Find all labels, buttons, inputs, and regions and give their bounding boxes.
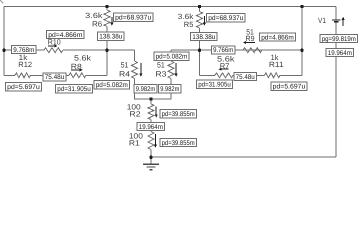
power box R4 xyxy=(94,81,130,90)
svg-text:R4: R4 xyxy=(119,69,130,78)
current box right row75 xyxy=(234,73,257,81)
svg-text:19.964m: 19.964m xyxy=(139,124,163,131)
current arrow R7 xyxy=(218,68,228,71)
power box V1 xyxy=(320,35,358,43)
svg-text:19.964m: 19.964m xyxy=(328,50,352,57)
wire bottom rail xyxy=(151,156,336,158)
svg-text:9.982m: 9.982m xyxy=(160,86,179,93)
node voltage box R4 bottom xyxy=(134,85,157,94)
svg-text:R12: R12 xyxy=(18,60,32,69)
svg-text:9.766m: 9.766m xyxy=(213,47,233,54)
current arrow R3 xyxy=(175,63,178,77)
svg-text:pd=5.082m: pd=5.082m xyxy=(156,54,188,61)
resistor R1 body xyxy=(148,132,154,150)
svg-text:75.48u: 75.48u xyxy=(45,74,65,81)
wire top rail xyxy=(4,6,336,8)
node voltage box R2 bottom xyxy=(137,123,165,131)
current arrow R9 xyxy=(243,41,255,44)
wire center column xyxy=(150,99,152,157)
wire R10 to junction xyxy=(63,49,135,51)
svg-text:9.768m: 9.768m xyxy=(13,47,34,54)
junction top-R6 xyxy=(105,5,108,8)
ground xyxy=(143,157,159,170)
node voltage box right row xyxy=(212,46,236,54)
svg-text:pd=39.855m: pd=39.855m xyxy=(162,140,195,147)
junction center xyxy=(149,97,152,100)
svg-text:pd=4.866m: pd=4.866m xyxy=(48,32,82,39)
wire R3 bottom lead xyxy=(151,79,171,100)
power box R9 xyxy=(260,33,296,41)
resistor R6 body xyxy=(104,10,110,27)
svg-text:51: 51 xyxy=(121,60,129,69)
current arrow V1 xyxy=(342,17,345,26)
svg-text:R1: R1 xyxy=(129,139,140,148)
power box R6 xyxy=(114,13,154,22)
power box R12 xyxy=(6,82,42,91)
node A junction xyxy=(2,49,5,52)
wire V1 bottom lead xyxy=(335,22,337,157)
power box R5 xyxy=(207,14,246,23)
wire R4 bottom lead xyxy=(135,79,152,100)
wire row75 left xyxy=(4,50,107,75)
resistor R12 body xyxy=(15,73,31,78)
wire left rail xyxy=(3,7,5,76)
svg-text:R11: R11 xyxy=(269,60,284,69)
current box R6 xyxy=(98,32,125,41)
svg-text:R9: R9 xyxy=(246,34,255,43)
corner tick xyxy=(0,0,4,4)
current arrow R1 xyxy=(154,134,157,148)
svg-text:138.38u: 138.38u xyxy=(99,33,122,40)
svg-text:pg=99.819m: pg=99.819m xyxy=(322,36,356,43)
svg-text:R3: R3 xyxy=(155,69,166,78)
current arrow R6 xyxy=(110,17,113,26)
resistor R9 body xyxy=(243,48,262,53)
current arrow R8 xyxy=(71,68,83,71)
node A row xyxy=(4,49,44,51)
wire R5 top stub xyxy=(199,7,201,12)
junction right-row xyxy=(300,49,303,52)
junction R5-row xyxy=(198,49,201,52)
current arrow R2 xyxy=(155,107,158,118)
power box R3 xyxy=(154,52,189,61)
current arrow R4 xyxy=(139,63,142,77)
svg-text:R7: R7 xyxy=(220,61,230,70)
resistor R11 body xyxy=(265,73,281,78)
svg-text:pd=31.905u: pd=31.905u xyxy=(57,86,91,93)
resistor R3 body xyxy=(168,61,174,79)
resistor R8 body xyxy=(69,73,86,78)
svg-text:pd=68.937u: pd=68.937u xyxy=(208,15,243,22)
battery V1 xyxy=(332,20,341,22)
resistor R5 body xyxy=(197,12,203,29)
resistor R2 body xyxy=(148,104,154,120)
power box R7 xyxy=(197,80,233,89)
svg-text:51: 51 xyxy=(157,60,165,69)
current box R5 xyxy=(191,33,218,41)
junction top-R5 xyxy=(198,5,201,8)
resistor R7 body xyxy=(215,73,233,78)
current box left row75 xyxy=(43,73,66,81)
power box R8 xyxy=(56,85,93,94)
svg-text:R2: R2 xyxy=(129,109,140,118)
wire V1 top lead xyxy=(335,7,337,20)
power box R1 xyxy=(160,139,197,147)
power box R10 xyxy=(47,31,85,39)
resistor R4 body xyxy=(132,61,138,79)
current arrow R10 xyxy=(48,44,58,47)
wire R3 top lead xyxy=(170,50,172,61)
wire R6 top stub xyxy=(106,7,108,11)
svg-text:pd=39.855m: pd=39.855m xyxy=(162,111,195,118)
svg-text:pd=5.082m: pd=5.082m xyxy=(96,82,128,89)
svg-text:R5: R5 xyxy=(184,20,194,29)
svg-text:pd=5.697u: pd=5.697u xyxy=(7,84,40,91)
svg-text:pd=68.937u: pd=68.937u xyxy=(115,15,151,22)
wire R6 bottom stub xyxy=(106,27,108,51)
svg-text:R8: R8 xyxy=(71,62,82,71)
node voltage box R3 bottom xyxy=(159,85,182,94)
wire row75 right xyxy=(200,50,303,75)
wire row50 right xyxy=(171,49,302,51)
junction top-right xyxy=(300,5,303,8)
junction R6-row xyxy=(105,49,108,52)
svg-text:9.982m: 9.982m xyxy=(136,86,156,93)
resistor R10 body xyxy=(44,48,63,53)
wire right rail xyxy=(301,7,303,76)
node voltage box V1 xyxy=(326,49,354,57)
svg-text:138.38u: 138.38u xyxy=(192,34,215,41)
current arrow R5 xyxy=(203,16,206,26)
wire R4 top lead xyxy=(134,50,136,61)
svg-text:R6: R6 xyxy=(92,19,102,28)
svg-text:pd=31.905u: pd=31.905u xyxy=(198,82,231,89)
svg-text:V1: V1 xyxy=(318,16,326,25)
power box R2 xyxy=(160,110,197,119)
node A voltage box xyxy=(12,46,37,54)
svg-text:pd=4.866m: pd=4.866m xyxy=(261,34,294,41)
wire R5 bottom stub xyxy=(199,28,201,50)
power box R11 xyxy=(271,82,307,91)
junction ground xyxy=(149,156,152,159)
svg-text:75.48u: 75.48u xyxy=(236,74,255,81)
svg-text:pd=5.697u: pd=5.697u xyxy=(273,84,306,91)
